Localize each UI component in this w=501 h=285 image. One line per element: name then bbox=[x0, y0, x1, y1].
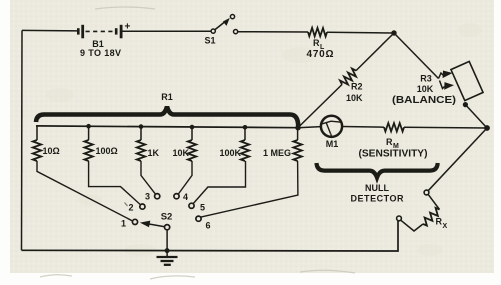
switch S1 bbox=[211, 15, 238, 34]
wire: M1 to RM bbox=[342, 126, 384, 129]
resistor RX bbox=[423, 208, 440, 226]
wire: R3 to right vertex bbox=[465, 105, 487, 128]
node: ground junction bbox=[165, 248, 170, 253]
svg-text:10Ω: 10Ω bbox=[43, 146, 60, 156]
resistor 1K of R1 bank bbox=[140, 127, 142, 140]
ground symbol bbox=[157, 251, 178, 265]
node: right vertex junction bbox=[484, 125, 490, 131]
wire: 1K to contact 3 bbox=[141, 161, 156, 194]
svg-text:1: 1 bbox=[121, 219, 126, 229]
S2 wiper arrow toward contact 1 bbox=[148, 224, 165, 227]
svg-text:10K: 10K bbox=[172, 148, 189, 158]
svg-text:R: R bbox=[386, 137, 393, 147]
resistor 100Ω of R1 bank bbox=[88, 126, 90, 140]
resistor R2 10K bbox=[340, 69, 356, 85]
svg-text:9 TO 18V: 9 TO 18V bbox=[80, 48, 121, 58]
contact 4 of S2 bbox=[174, 194, 179, 199]
wire: terminal A to RX bbox=[428, 194, 439, 209]
wire: R2 to left vertex bbox=[298, 85, 342, 128]
wire: left rail bbox=[21, 30, 24, 250]
wire: 10ohm to contact 1 bbox=[37, 161, 133, 221]
svg-text:4: 4 bbox=[183, 192, 188, 202]
node: bus junction at x=88.6 bbox=[86, 124, 91, 129]
node: R3 bottom junction bbox=[463, 102, 468, 107]
svg-text:(SENSITIVITY): (SENSITIVITY) bbox=[359, 149, 428, 160]
svg-text:R: R bbox=[313, 38, 320, 48]
wire: 1MEG to contact 6 bbox=[200, 161, 298, 217]
wire: 100ohm to contact 2 bbox=[89, 161, 141, 205]
wire: left vertex to M1 bbox=[298, 127, 321, 128]
wire: R1 bus bar bbox=[36, 126, 298, 128]
battery B1 bbox=[78, 25, 121, 39]
wire: S2 pole to bottom rail bbox=[166, 230, 168, 251]
wire: top rail from left corner to battery bbox=[22, 29, 78, 32]
terminal A bbox=[424, 190, 429, 195]
svg-text:M1: M1 bbox=[326, 139, 339, 149]
contact 1 of S2 bbox=[132, 219, 137, 224]
resistor 100K of R1 bank bbox=[244, 127, 246, 140]
wire: S1 to RL bbox=[238, 31, 308, 33]
svg-text:100Ω: 100Ω bbox=[96, 146, 118, 156]
wire: RX to terminal B bbox=[401, 220, 423, 231]
resistor RM bbox=[384, 123, 404, 132]
svg-text:10K: 10K bbox=[346, 93, 363, 103]
svg-text:R1: R1 bbox=[161, 92, 173, 102]
svg-text:470Ω: 470Ω bbox=[307, 49, 334, 60]
contact 6 of S2 bbox=[196, 216, 201, 221]
resistor 10Ω of R1 bank bbox=[36, 126, 38, 140]
meter M1 bbox=[321, 116, 342, 137]
svg-text:6: 6 bbox=[205, 221, 210, 231]
wire: top node to R2 bbox=[356, 33, 394, 71]
brace NULL DETECTOR bbox=[317, 163, 438, 178]
contact 2 of S2 bbox=[140, 204, 145, 209]
wire: RM to right vertex bbox=[404, 126, 487, 129]
contact 5 of S2 bbox=[189, 203, 194, 208]
svg-text:R3: R3 bbox=[420, 74, 432, 84]
resistor 10K of R1 bank bbox=[191, 127, 193, 140]
brace over R1 bank bbox=[36, 107, 298, 127]
svg-text:100K: 100K bbox=[219, 148, 241, 158]
svg-text:S2: S2 bbox=[161, 212, 173, 223]
terminal B bbox=[397, 216, 402, 221]
decorative smudges (not labelled components) bbox=[40, 7, 355, 279]
node: bus junction at x=245 bbox=[243, 125, 248, 130]
svg-text:3: 3 bbox=[145, 192, 150, 202]
svg-text:X: X bbox=[443, 223, 448, 230]
wire: top node to R3 wiper bbox=[394, 33, 439, 79]
contact 3 of S2 bbox=[155, 194, 160, 199]
R3 wiper arrows bbox=[439, 72, 453, 89]
svg-text:2: 2 bbox=[128, 203, 133, 213]
svg-text:DETECTOR: DETECTOR bbox=[351, 194, 405, 204]
wire: battery to S1 bbox=[121, 30, 211, 32]
wire: 100K to contact 5 bbox=[193, 161, 245, 204]
svg-text:S1: S1 bbox=[204, 36, 215, 46]
stray mark near 2 bbox=[125, 203, 128, 207]
svg-text:10K: 10K bbox=[417, 84, 434, 94]
node: bus junction at x=192 bbox=[190, 125, 195, 130]
wire: bottom rail bbox=[22, 221, 399, 251]
svg-text:1 MEG: 1 MEG bbox=[263, 148, 291, 158]
svg-text:R: R bbox=[436, 217, 443, 227]
switch S2 pole bbox=[165, 225, 170, 230]
node: bus junction at x=141 bbox=[139, 124, 144, 129]
svg-text:1K: 1K bbox=[148, 148, 160, 158]
node: top vertex junction bbox=[391, 30, 396, 35]
resistor RL 470ohm bbox=[308, 28, 327, 37]
svg-text:R2: R2 bbox=[351, 82, 363, 92]
svg-text:(BALANCE): (BALANCE) bbox=[392, 95, 456, 106]
wire: right vertex to RX terminal A bbox=[428, 128, 487, 191]
wire: RL to top node bbox=[327, 31, 394, 34]
svg-text:5: 5 bbox=[200, 203, 205, 213]
svg-text:NULL: NULL bbox=[365, 183, 389, 193]
wire: 10K to contact 4 bbox=[178, 161, 192, 195]
resistor 1 MEG of R1 bank bbox=[297, 128, 299, 140]
potentiometer R3 10K (BALANCE) box bbox=[451, 61, 483, 100]
node: left vertex junction bbox=[295, 125, 300, 130]
